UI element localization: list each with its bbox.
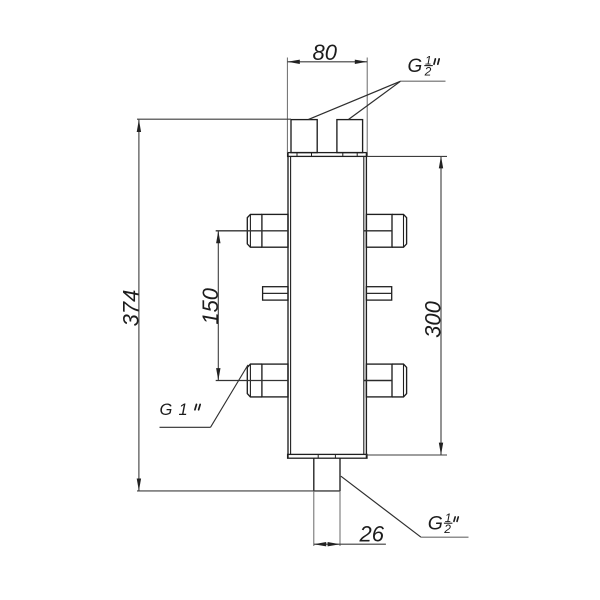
body outer left wall bbox=[287, 153, 289, 458]
dim 300 extension top bbox=[367, 155, 447, 157]
stub mid-left midline bbox=[263, 292, 288, 294]
port bottom-left G1 nut bbox=[247, 364, 262, 397]
port top-right midline bbox=[364, 230, 392, 232]
leader bottom G1/2 underline bbox=[421, 536, 469, 538]
bottom pipe G1/2 bbox=[314, 458, 340, 491]
top plate tick marks bbox=[297, 153, 357, 157]
port top-left G1 tube bbox=[262, 214, 288, 247]
dim 374 extension top bbox=[137, 118, 291, 120]
svg-text:374: 374 bbox=[119, 290, 144, 327]
dim 150 arrow top bbox=[216, 231, 220, 243]
leader bottom G1/2 diagonal bbox=[341, 476, 421, 537]
port bottom-right midline bbox=[364, 380, 392, 382]
dim 26 extension right bbox=[339, 491, 341, 546]
top fitting left G1/2 bbox=[291, 120, 317, 153]
dim 80 extension line left bbox=[286, 58, 288, 153]
port bottom-right G1 nut bbox=[392, 364, 407, 397]
leader G1 diagonal bbox=[211, 365, 249, 427]
stub mid-right bbox=[366, 287, 391, 300]
stub mid-left bbox=[263, 287, 288, 300]
port top-right G1 tube bbox=[366, 214, 392, 247]
svg-text:2: 2 bbox=[424, 64, 432, 78]
dim 80 arrow left bbox=[287, 60, 299, 64]
leader top G1/2 diagonal to left fitting bbox=[309, 81, 401, 119]
svg-text:G: G bbox=[428, 513, 443, 535]
svg-text:300: 300 bbox=[420, 300, 445, 337]
dim 80 arrow right bbox=[355, 60, 367, 64]
dim 150 arrow bottom bbox=[216, 368, 220, 380]
dim 150 line bbox=[217, 231, 219, 381]
stub mid-right midline bbox=[366, 292, 391, 294]
top cap plate bbox=[288, 153, 367, 157]
dim 374 extension bottom / pipe end bbox=[137, 490, 340, 492]
dim 300 extension bottom bbox=[366, 454, 447, 456]
dim 150 extension bottom / port bottom-left midline bbox=[216, 380, 288, 382]
dim 26 arrow left bbox=[314, 542, 326, 546]
leader top G1/2 underline bbox=[401, 80, 446, 82]
svg-text:2: 2 bbox=[443, 522, 451, 536]
dim 80 extension line right bbox=[366, 58, 368, 153]
dim 80 line bbox=[287, 61, 367, 63]
port bottom-right G1 tube bbox=[366, 364, 392, 397]
dim 374 arrow bottom bbox=[137, 479, 141, 491]
port top-left G1 nut bbox=[247, 214, 262, 247]
dim 300 arrow bottom bbox=[439, 443, 443, 455]
svg-text:26: 26 bbox=[359, 522, 385, 547]
port top-right G1 nut bbox=[392, 214, 407, 247]
port bottom-right nut facet line bbox=[403, 364, 405, 397]
top fitting right G1/2 bbox=[337, 120, 363, 153]
port top-right nut facet line bbox=[403, 214, 405, 247]
svg-text:G: G bbox=[160, 401, 173, 419]
svg-text:80: 80 bbox=[313, 40, 338, 65]
dim 300 line bbox=[440, 156, 442, 455]
bottom cap plate bbox=[288, 454, 367, 458]
dim 300 arrow top bbox=[439, 156, 443, 168]
dim 374 line bbox=[138, 120, 140, 491]
bottom plate tick marks bbox=[318, 454, 335, 458]
svg-text:G: G bbox=[408, 56, 423, 77]
body inner left wall bbox=[290, 156, 292, 454]
dim 26 arrow right bbox=[328, 542, 340, 546]
dim 26 line bbox=[314, 543, 386, 545]
svg-text:150: 150 bbox=[198, 287, 223, 324]
port bottom-left G1 tube bbox=[262, 364, 288, 397]
body outer right wall bbox=[365, 153, 367, 458]
dim 150 extension top / port top-left midline bbox=[216, 230, 288, 232]
dim 374 arrow top bbox=[137, 120, 141, 132]
dim 26 extension left bbox=[313, 491, 315, 546]
port top-left nut facet line bbox=[249, 214, 251, 247]
leader top G1/2 diagonal to right fitting bbox=[349, 81, 401, 119]
port bottom-left nut facet line bbox=[249, 364, 251, 397]
body inner right wall bbox=[363, 156, 365, 454]
leader G1 underline bbox=[160, 426, 211, 428]
svg-text:1: 1 bbox=[179, 401, 188, 419]
